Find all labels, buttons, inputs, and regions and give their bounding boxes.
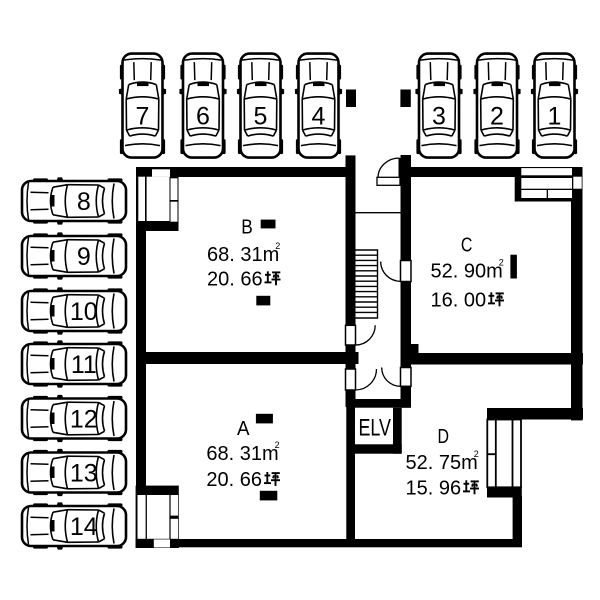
- A corner window block: [136, 486, 179, 548]
- carport pillar left of entrance: [346, 90, 356, 108]
- svg-text:10: 10: [70, 298, 98, 326]
- corridor left wall mid: [346, 345, 356, 369]
- B/A divider wall: [136, 352, 359, 364]
- door to unit D: arc: [382, 368, 401, 387]
- svg-text:52. 75m: 52. 75m: [406, 452, 478, 474]
- svg-text:20. 66: 20. 66: [207, 268, 263, 290]
- corridor right wall mid: [401, 282, 412, 368]
- svg-text:ELV: ELV: [359, 415, 392, 442]
- D lower-right wall: [513, 496, 522, 547]
- C corner closet block: [515, 167, 583, 202]
- unit A pillar marker 1: [256, 414, 273, 424]
- corridor left wall upper: [346, 155, 356, 325]
- svg-text:11: 11: [71, 351, 97, 379]
- car 7: [119, 54, 166, 158]
- door to unit A: leaf: [346, 369, 356, 390]
- svg-text:2: 2: [275, 440, 280, 450]
- svg-text:B: B: [241, 217, 253, 239]
- svg-text:3: 3: [432, 103, 446, 131]
- svg-text:8: 8: [77, 188, 91, 216]
- right outer wall: [571, 167, 583, 420]
- svg-text:2: 2: [474, 449, 479, 459]
- D upper-right wall: [487, 408, 583, 420]
- car 1: [531, 54, 578, 158]
- B corner closet block: [136, 167, 179, 231]
- entrance door arc: [378, 158, 400, 178]
- svg-text:68. 31m: 68. 31m: [206, 443, 278, 465]
- unit B pillar marker 1: [261, 220, 276, 229]
- unit B pillar marker 2: [256, 296, 270, 306]
- corridor left wall lower: [346, 390, 356, 407]
- svg-text:1: 1: [548, 103, 562, 131]
- corridor right wall lower: [401, 386, 412, 407]
- ELV left wall and A/D divider: [346, 399, 355, 547]
- corridor stairs: [356, 250, 378, 318]
- unit A pillar marker 2: [260, 491, 278, 501]
- left outer wall: [136, 167, 146, 492]
- bottom outer wall: [136, 539, 522, 547]
- ELV right wall: [393, 408, 402, 454]
- car 9: [22, 232, 126, 279]
- unit C pillar marker: [510, 255, 517, 279]
- svg-text:2: 2: [499, 257, 504, 267]
- car 5: [237, 54, 284, 158]
- car 11: [22, 340, 126, 387]
- svg-text:A: A: [237, 418, 250, 440]
- svg-text:52. 90m: 52. 90m: [431, 260, 503, 282]
- door to unit B: arc: [356, 325, 376, 345]
- top wall right segment: [401, 167, 583, 177]
- door to unit C: leaf: [401, 261, 412, 282]
- car 6: [179, 54, 226, 158]
- car 12: [22, 395, 126, 442]
- svg-text:16. 00: 16. 00: [431, 289, 487, 311]
- top wall left segment: [136, 167, 349, 177]
- svg-text:7: 7: [136, 103, 150, 131]
- door to unit A: arc: [356, 369, 377, 390]
- svg-text:D: D: [437, 426, 449, 448]
- svg-text:68. 31m: 68. 31m: [207, 244, 279, 266]
- door to unit D: leaf: [401, 368, 412, 387]
- entrance threshold: [377, 177, 400, 185]
- car 2: [473, 54, 520, 158]
- svg-text:4: 4: [312, 103, 326, 131]
- svg-text:9: 9: [77, 243, 91, 271]
- svg-text:15. 96: 15. 96: [406, 477, 462, 499]
- svg-text:2: 2: [275, 241, 280, 251]
- outside stairs by unit D: [487, 420, 521, 488]
- duct stub at C bottom wall: [411, 344, 419, 355]
- svg-text:2: 2: [490, 103, 504, 131]
- ELV bottom wall: [355, 444, 402, 453]
- svg-text:5: 5: [254, 103, 268, 131]
- C bottom wall: [402, 353, 583, 365]
- car 8: [22, 177, 126, 224]
- svg-text:20. 66: 20. 66: [206, 469, 262, 491]
- svg-text:14: 14: [70, 513, 98, 541]
- door to unit C: arc: [381, 262, 401, 282]
- corridor right wall upper: [401, 155, 412, 262]
- carport pillar right of entrance: [400, 90, 410, 108]
- corridor step line: [356, 212, 401, 214]
- walls: [136, 155, 583, 547]
- ELV top wall / corridor bottom wall: [346, 399, 410, 408]
- svg-text:C: C: [461, 235, 473, 257]
- svg-text:12: 12: [70, 405, 98, 433]
- entrance door leaf: [399, 158, 401, 178]
- car 14: [22, 502, 126, 549]
- svg-text:6: 6: [196, 103, 210, 131]
- car 4: [295, 54, 342, 158]
- car 13: [22, 449, 126, 496]
- car 3: [415, 54, 462, 158]
- wall below outside stairs: [487, 487, 522, 498]
- car 10: [22, 287, 126, 334]
- svg-text:13: 13: [70, 459, 98, 487]
- door to unit B: leaf: [346, 325, 356, 345]
